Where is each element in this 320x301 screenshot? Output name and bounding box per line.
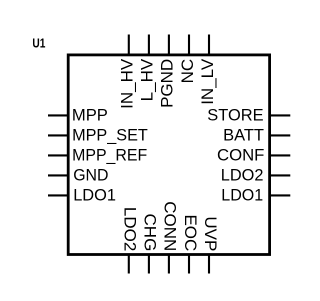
svg-text:GND: GND [73,165,108,184]
svg-text:STORE: STORE [207,105,263,124]
svg-text:LDO1: LDO1 [221,185,263,204]
pin IN_HV (top) wire [128,35,130,55]
svg-text:MPP_SET: MPP_SET [72,125,148,144]
pin PGND (top) wire [168,35,170,55]
pin MPP_SET (left) wire [48,134,68,136]
svg-text:CONF: CONF [217,145,264,164]
pin CONF (right) wire [270,154,291,156]
svg-text:CONN: CONN [161,201,180,251]
pin CONN (bottom) wire [168,255,170,274]
svg-text:NC: NC [178,59,197,84]
pin STORE (right) wire [270,114,291,116]
pin LDO2 (right) wire [270,174,291,176]
pin LDO1 (right) wire [270,194,291,196]
svg-text:EOC: EOC [181,214,200,251]
pin BATT (right) wire [270,134,291,136]
pin UVP (bottom) wire [208,255,210,274]
IC body U1 [68,55,269,255]
svg-text:MPP: MPP [72,105,108,124]
svg-text:BATT: BATT [223,125,264,144]
pin GND (left) wire [48,174,68,176]
pin LDO1 (left) wire [48,194,68,196]
svg-text:CHG: CHG [141,214,160,252]
svg-text:L_HV: L_HV [138,58,157,101]
svg-text:UVP: UVP [201,216,220,251]
svg-text:IN_LV: IN_LV [198,58,217,105]
svg-text:LDO1: LDO1 [73,185,116,204]
pin LDO2 (bottom) wire [128,255,130,274]
pin EOC (bottom) wire [188,255,190,274]
svg-text:LDO2: LDO2 [221,165,264,184]
svg-text:IN_HV: IN_HV [118,58,137,109]
pin MPP (left) wire [48,114,68,116]
svg-text:MPP_REF: MPP_REF [72,145,147,164]
svg-text:LDO2: LDO2 [121,207,140,251]
pin MPP_REF (left) wire [48,154,68,156]
svg-text:PGND: PGND [158,59,177,108]
pin IN_LV (top) wire [208,35,210,55]
pin L_HV (top) wire [148,35,150,55]
pin NC (top) wire [188,35,190,55]
pin CHG (bottom) wire [148,255,150,274]
svg-text:U1: U1 [32,37,45,51]
